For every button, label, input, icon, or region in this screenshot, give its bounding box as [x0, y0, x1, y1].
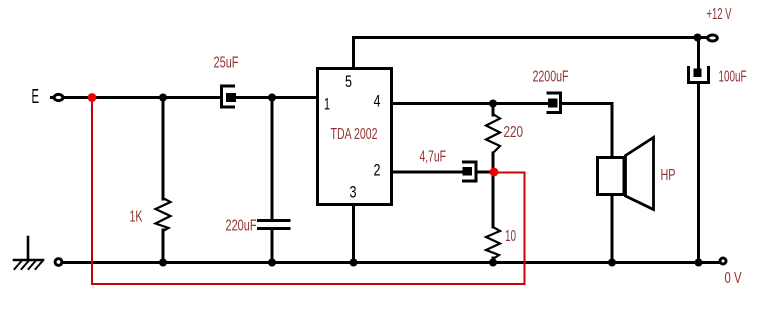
capacitor C4 2200uF: [548, 93, 561, 113]
wire 1K branch bottom: [162, 230, 165, 263]
wire pin 2 to 4,7uF: [392, 171, 464, 174]
wire 220uF branch bottom: [271, 230, 274, 263]
svg-text:1K: 1K: [130, 209, 143, 226]
resistor R1 1K: [156, 198, 171, 231]
wire pin 3 to ground rail: [352, 206, 355, 263]
speaker HP: [598, 138, 654, 210]
svg-text:220: 220: [504, 124, 524, 141]
wire red feedback left vertical: [91, 98, 93, 285]
node junction ground-220uF: [268, 259, 276, 267]
terminal E input: [52, 94, 63, 100]
svg-text:E: E: [32, 86, 40, 108]
wire 100uF to ground rail: [697, 84, 700, 263]
wire red feedback right vertical: [524, 173, 526, 285]
terminal ground left: [55, 259, 62, 266]
node A junction pin4-220: [489, 100, 497, 108]
wire node B to 10 resistor: [492, 172, 495, 227]
node junction input-220uF: [268, 94, 276, 102]
wire node A to 220 resistor: [492, 104, 495, 116]
op-amp U1 TDA2002 body: [318, 69, 392, 205]
svg-text:220uF: 220uF: [226, 218, 257, 235]
terminal +12V: [708, 35, 718, 41]
wire 220uF branch top: [271, 98, 274, 220]
node junction ground-pin3: [350, 259, 358, 267]
capacitor C3 4,7uF: [463, 162, 477, 181]
node B red junction: [490, 168, 499, 177]
wire top rail pin 5 to +12V: [354, 38, 708, 68]
resistor R3 10: [486, 227, 500, 259]
capacitor C1 25uF: [222, 86, 237, 107]
capacitor C5 100uF: [689, 68, 709, 83]
svg-text:10: 10: [505, 228, 516, 245]
wire 4,7uF to node B: [477, 171, 496, 174]
node junction top rail +12V: [694, 34, 702, 42]
node junction input-1K: [159, 94, 167, 102]
resistor R2 220: [486, 114, 500, 153]
node junction ground-1K: [159, 259, 167, 267]
wire speaker to ground rail: [611, 195, 614, 263]
svg-text:0 V: 0 V: [725, 270, 742, 287]
svg-text:TDA 2002: TDA 2002: [331, 126, 378, 143]
wire 220 resistor to node B: [492, 153, 495, 172]
wire +12V branch to 100uF: [697, 38, 700, 70]
wire 25uF to pin 1: [235, 96, 317, 99]
capacitor C2 220uF: [259, 221, 290, 229]
wire 1K branch top: [162, 98, 165, 200]
svg-text:5: 5: [345, 72, 352, 91]
svg-text:1: 1: [324, 95, 330, 114]
node junction ground-speaker: [608, 259, 616, 267]
ground symbol: [14, 237, 43, 269]
wire 2200uF to speaker: [562, 104, 613, 158]
wire pin 4 to 2200uF: [392, 102, 549, 105]
svg-text:2: 2: [374, 161, 381, 180]
svg-text:100uF: 100uF: [719, 69, 747, 86]
wire red feedback to node B: [496, 172, 525, 174]
svg-text:4: 4: [374, 92, 381, 111]
node junction ground-10: [489, 259, 497, 267]
svg-text:+12 V: +12 V: [707, 6, 732, 23]
wire input E to 25uF: [63, 96, 221, 99]
node junction ground-100uF: [695, 259, 703, 267]
wire 10 resistor to ground rail: [492, 258, 495, 263]
node red junction input: [88, 93, 97, 102]
svg-text:4,7uF: 4,7uF: [420, 149, 447, 166]
terminal 0V: [720, 258, 726, 264]
wire red feedback bottom: [92, 283, 525, 285]
svg-text:HP: HP: [661, 167, 676, 184]
svg-text:2200uF: 2200uF: [533, 69, 569, 86]
wire ground rail: [63, 261, 720, 264]
svg-text:3: 3: [350, 183, 357, 202]
svg-text:25uF: 25uF: [214, 55, 239, 72]
